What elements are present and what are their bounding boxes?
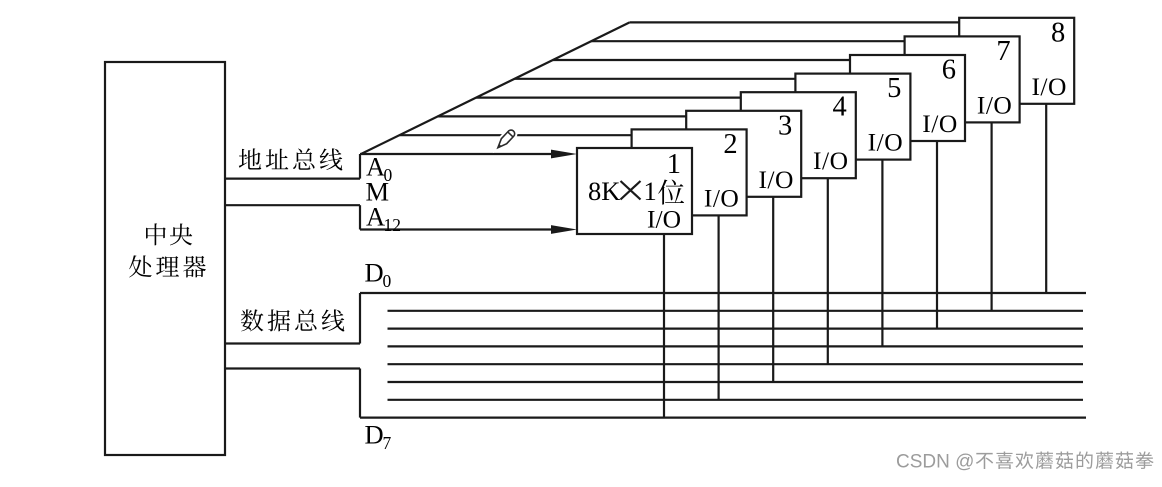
- svg-text:I/O: I/O: [704, 183, 740, 212]
- svg-text:A: A: [366, 201, 385, 231]
- svg-text:I/O: I/O: [1031, 72, 1067, 101]
- svg-text:I/O: I/O: [647, 205, 681, 234]
- svg-text:8K: 8K: [588, 176, 620, 206]
- svg-text:1: 1: [644, 176, 657, 206]
- svg-text:7: 7: [383, 433, 392, 453]
- svg-text:D: D: [365, 258, 384, 288]
- svg-text:0: 0: [383, 271, 392, 291]
- svg-text:CSDN @: CSDN @: [896, 452, 974, 473]
- svg-text:3: 3: [778, 110, 792, 141]
- svg-text:I/O: I/O: [977, 90, 1013, 119]
- svg-text:8: 8: [1051, 17, 1065, 48]
- svg-text:I/O: I/O: [868, 128, 904, 157]
- svg-text:I/O: I/O: [813, 146, 849, 175]
- svg-text:2: 2: [723, 129, 737, 160]
- svg-text:I/O: I/O: [922, 109, 958, 138]
- svg-text:1: 1: [667, 149, 681, 180]
- svg-text:D: D: [365, 420, 384, 450]
- svg-text:7: 7: [996, 36, 1010, 67]
- svg-text:6: 6: [942, 55, 956, 86]
- svg-text:4: 4: [833, 92, 847, 123]
- svg-text:1: 1: [384, 215, 393, 235]
- svg-text:2: 2: [392, 215, 401, 235]
- svg-text:I/O: I/O: [758, 165, 794, 194]
- svg-text:5: 5: [887, 73, 901, 104]
